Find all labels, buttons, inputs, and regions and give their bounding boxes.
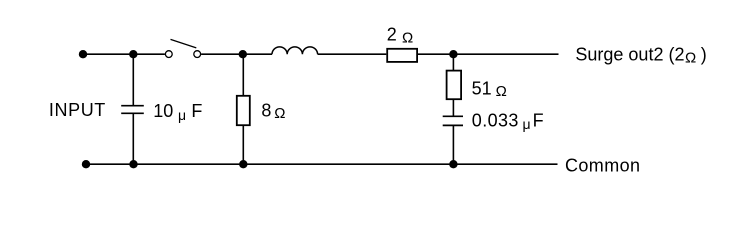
svg-text:INPUT: INPUT xyxy=(49,100,106,120)
svg-text:Ω: Ω xyxy=(685,49,696,66)
svg-text:2: 2 xyxy=(387,25,397,45)
svg-text:Ω: Ω xyxy=(274,105,285,122)
node bottom of C2 xyxy=(449,160,457,168)
svg-text:10: 10 xyxy=(153,101,173,121)
svg-text:Ω: Ω xyxy=(402,29,413,46)
resistor R2 2 ohm (series) xyxy=(387,49,417,62)
value label 51 ohm xyxy=(472,78,507,100)
svg-text:0.033: 0.033 xyxy=(472,111,519,131)
wire bottom rail (Common) xyxy=(86,163,558,165)
svg-text:): ) xyxy=(701,44,707,64)
value label 2 ohm xyxy=(387,25,413,47)
wire from output node down to resistor R3 xyxy=(452,54,454,70)
svg-text:8: 8 xyxy=(261,100,271,120)
resistor R3 51 ohm (snubber) xyxy=(447,71,462,100)
label INPUT xyxy=(49,100,106,120)
wire from top rail down to resistor R1 xyxy=(242,54,244,95)
svg-text:F: F xyxy=(191,101,202,121)
wire from resistor R3 to capacitor C2 xyxy=(452,99,454,116)
wire top rail segment from R2 to output node xyxy=(418,53,453,55)
node top of C1 xyxy=(129,50,137,58)
svg-text:51: 51 xyxy=(472,78,492,98)
node top of R3 (output) xyxy=(449,50,457,58)
switch S1 (open SPST) xyxy=(165,39,200,57)
resistor R1 8 ohm (shunt) xyxy=(237,96,250,125)
capacitor C2 0.033 uF (snubber) xyxy=(443,116,463,125)
capacitor C1 10 uF xyxy=(121,106,144,114)
wire top rail segment from input node to switch xyxy=(83,53,165,55)
wire from capacitor C2 to bottom rail xyxy=(452,125,454,164)
svg-text:F: F xyxy=(533,111,544,131)
wire top rail segment from output node to Surge out2 terminal xyxy=(453,53,558,55)
wire from top rail down to capacitor C1 xyxy=(132,54,134,105)
value label 8 ohm xyxy=(261,100,285,122)
inductor L1 xyxy=(272,47,318,54)
label Common xyxy=(565,155,640,175)
label Surge out2 (2 ohm) xyxy=(575,44,706,66)
wire top rail segment from switch to inductor xyxy=(201,53,272,55)
node input bottom xyxy=(82,160,90,168)
svg-text:Ω: Ω xyxy=(496,83,507,100)
svg-text:μ: μ xyxy=(178,107,186,123)
value label 0.033 uF xyxy=(472,111,544,132)
value label 10 uF xyxy=(153,101,202,123)
wire from capacitor C1 to bottom rail xyxy=(132,113,134,164)
svg-text:Surge out2 (2: Surge out2 (2 xyxy=(575,44,684,64)
svg-text:Common: Common xyxy=(565,155,640,175)
node top of R1 xyxy=(239,50,247,58)
node bottom of C1 xyxy=(129,160,137,168)
svg-text:μ: μ xyxy=(523,116,531,132)
wire top rail segment from inductor to resistor R2 xyxy=(318,53,387,55)
wire from resistor R1 to bottom rail xyxy=(242,126,244,165)
node bottom of R1 xyxy=(239,160,247,168)
node input top xyxy=(79,50,87,58)
